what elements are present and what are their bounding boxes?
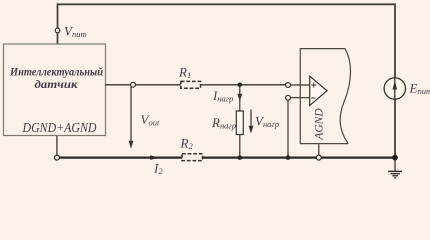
node: Eпит ground junction	[392, 155, 398, 161]
wire: inverting input to opamp	[290, 97, 309, 99]
svg-text:датчик: датчик	[35, 79, 79, 91]
wire: inverting input to ground rail	[287, 100, 289, 158]
sensor block: Интеллектуальный датчик	[4, 44, 106, 136]
resistor R1 (dashed line-resistance box)	[181, 81, 201, 88]
terminal: opamp noninverting input	[286, 83, 291, 88]
ADC block with AGND (torn right edge)	[300, 49, 348, 144]
arrow Vout	[130, 87, 132, 146]
svg-text:DGND+AGND: DGND+AGND	[22, 121, 97, 136]
wire: sensor output to opamp input	[106, 84, 286, 86]
svg-text:Интеллектуальный: Интеллектуальный	[9, 65, 103, 78]
svg-text:AGND: AGND	[314, 108, 326, 141]
terminal Vпит (open circle)	[55, 28, 60, 33]
terminal: sensor ground (open circle)	[54, 155, 59, 160]
resistor R2 (dashed line-resistance box)	[182, 154, 203, 161]
arrow Vнагр	[250, 110, 252, 132]
arrow Iнагр (current arrowhead on branch wire)	[237, 94, 242, 102]
wire: junction to Rнагр	[239, 85, 241, 111]
wire: sensor block bottom lead to ground rail	[56, 136, 58, 158]
wire: ADC block to ground rail	[318, 144, 320, 158]
wire: junction to ground symbol	[394, 158, 396, 172]
op-amp U1	[310, 76, 327, 105]
terminal: sensor output (open circle)	[131, 82, 136, 87]
wire: top supply rail from Vпит node to Eпит branch	[58, 4, 396, 157]
node: inverting input ground junction	[286, 155, 291, 160]
arrow I2 (current arrowhead on ground rail)	[150, 155, 158, 160]
resistor Rнагр	[236, 111, 243, 135]
source Eпит (circle with up arrow)	[384, 78, 405, 99]
terminal: AGND ground (open circle on rail)	[316, 155, 321, 160]
node: load branch top junction	[238, 83, 243, 88]
ground rail (bold bottom wire)	[57, 157, 395, 159]
ground	[388, 170, 402, 172]
node: Rнагр bottom junction	[238, 155, 243, 160]
wire: Rнагр to ground rail	[239, 135, 241, 158]
terminal: opamp inverting input	[286, 95, 291, 100]
wire: input to opamp	[290, 84, 309, 86]
